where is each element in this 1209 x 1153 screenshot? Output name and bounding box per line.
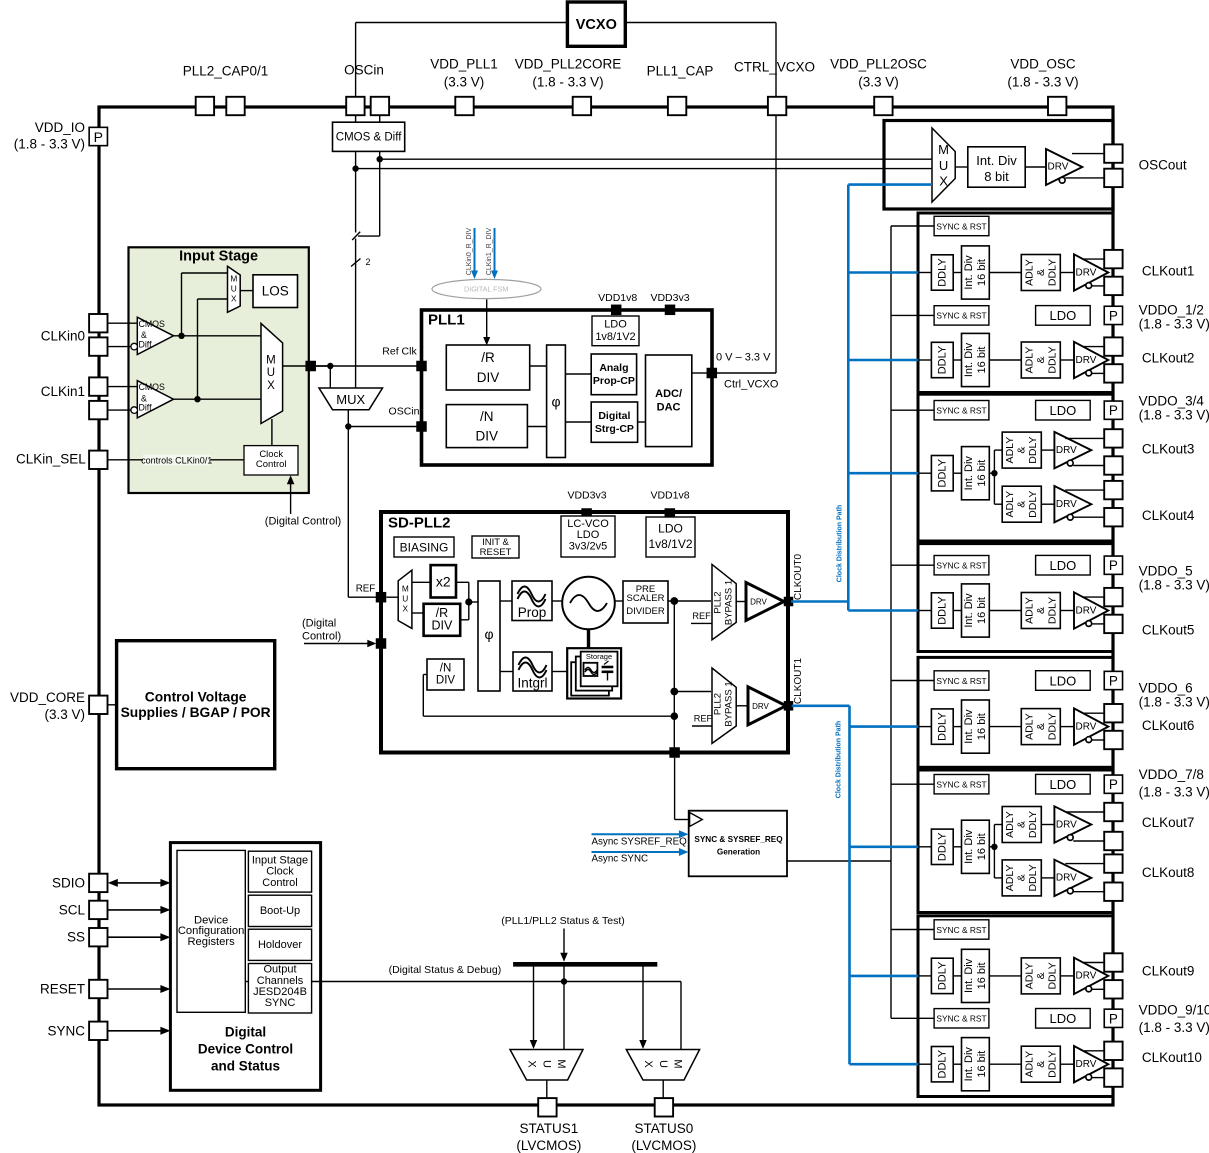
svg-text:LDO: LDO xyxy=(1050,308,1077,323)
svg-text:CLKin_SEL: CLKin_SEL xyxy=(16,452,86,467)
svg-text:Holdover: Holdover xyxy=(258,939,302,951)
block Control Voltage Supplies / BGAP / POR xyxy=(117,641,275,769)
svg-text:X: X xyxy=(267,380,275,392)
node VDD3v3 SD-PLL2 xyxy=(581,508,592,519)
svg-text:Int. Div: Int. Div xyxy=(963,709,975,744)
block Digital Device Control and Status xyxy=(170,843,320,1091)
wire Ref Clk line xyxy=(316,365,422,367)
block CMOS & Diff xyxy=(333,122,405,151)
svg-text:controls CLKin0/1: controls CLKin0/1 xyxy=(141,455,212,465)
arrow Async SYSREF_REQ xyxy=(592,833,681,835)
svg-text:X: X xyxy=(231,294,237,304)
svg-text:Int. Div: Int. Div xyxy=(963,593,975,628)
svg-text:Intgrl: Intgrl xyxy=(517,676,547,691)
wire REF to SD-PLL2 xyxy=(348,596,376,598)
svg-text:P: P xyxy=(94,129,103,145)
ldo VDDO_7/8 xyxy=(1036,774,1091,794)
svg-text:CLKOUT0: CLKOUT0 xyxy=(793,554,804,601)
wire Intgrl to storage xyxy=(552,671,567,673)
phase detector SD-PLL2 xyxy=(478,581,500,691)
svg-text:VDDO_3/4: VDDO_3/4 xyxy=(1139,394,1205,409)
pin SYNC xyxy=(89,1022,107,1040)
svg-text:Int. Div: Int. Div xyxy=(963,255,975,290)
pin CLKin_SEL xyxy=(89,451,107,469)
svg-text:P: P xyxy=(1109,308,1118,323)
svg-text:VDD_PLL1: VDD_PLL1 xyxy=(430,57,498,72)
label CLKOUT1 xyxy=(793,658,804,705)
svg-text:DIV: DIV xyxy=(436,675,456,687)
block SD-PLL2 xyxy=(381,512,788,753)
svg-text:Analg: Analg xyxy=(599,362,628,374)
node VDD1v8 PLL1 xyxy=(611,305,622,316)
svg-text:ADLY: ADLY xyxy=(1023,259,1035,286)
svg-text:P: P xyxy=(1109,777,1118,792)
divider /R DIV SD-PLL2 xyxy=(424,604,461,636)
mux STATUS1 xyxy=(510,1050,583,1081)
ldo VDDO_3/4 xyxy=(1036,400,1091,420)
svg-text:DDLY: DDLY xyxy=(1046,597,1058,624)
svg-text:Int. Div: Int. Div xyxy=(963,342,975,377)
svg-text:Clock Distribution Path: Clock Distribution Path xyxy=(835,721,842,798)
svg-text:X: X xyxy=(939,174,948,189)
svg-text:DDLY: DDLY xyxy=(936,1049,948,1078)
svg-text:DDLY: DDLY xyxy=(936,596,948,625)
svg-text:&: & xyxy=(1016,821,1028,828)
svg-text:Control Voltage: Control Voltage xyxy=(145,690,247,705)
pin OSCin_a xyxy=(346,97,364,115)
svg-text:Boot-Up: Boot-Up xyxy=(260,905,300,917)
svg-text:LDO: LDO xyxy=(1050,1011,1077,1026)
arrow CLKin0_R_DIV xyxy=(474,228,476,272)
svg-text:(3.3 V): (3.3 V) xyxy=(858,75,899,90)
svg-text:DRV: DRV xyxy=(1076,267,1097,278)
svg-text:(1.8 - 3.3 V): (1.8 - 3.3 V) xyxy=(532,75,603,90)
wire prescaler node down xyxy=(673,601,675,753)
svg-text:SYNC & RST: SYNC & RST xyxy=(936,780,986,790)
ldo VDDO_5 xyxy=(1036,555,1091,575)
wire Prop to VCO xyxy=(552,600,562,602)
channel CLKout2 xyxy=(848,359,918,362)
svg-text:&: & xyxy=(1035,269,1047,276)
svg-text:STATUS0: STATUS0 xyxy=(635,1121,694,1136)
arrow SDIO bidirectional xyxy=(112,882,166,884)
block LDO 1v8/1V2 PLL1 xyxy=(592,316,639,346)
svg-text:ADLY: ADLY xyxy=(1004,437,1016,464)
pin SCL xyxy=(89,901,107,919)
svg-text:VDDO_1/2: VDDO_1/2 xyxy=(1139,303,1204,318)
svg-text:Registers: Registers xyxy=(187,936,235,948)
svg-text:P: P xyxy=(1109,558,1118,573)
svg-text:M: M xyxy=(230,274,237,284)
svg-text:(LVCMOS): (LVCMOS) xyxy=(516,1138,581,1153)
block Boot-Up xyxy=(248,895,311,926)
arrow FSM to /R DIV xyxy=(486,299,488,338)
node SD-PLL2 bottom clock out xyxy=(669,747,680,758)
pin SS xyxy=(89,928,107,946)
block Device Configuration Registers xyxy=(177,850,245,1012)
svg-text:CLKout5: CLKout5 xyxy=(1142,623,1195,638)
block x2 doubler xyxy=(431,565,456,597)
svg-text:VDD_OSC: VDD_OSC xyxy=(1010,57,1076,72)
svg-text:and Status: and Status xyxy=(211,1058,280,1073)
wire buffer1 to big mux xyxy=(174,398,261,400)
svg-text:16 bit: 16 bit xyxy=(976,460,988,487)
svg-text:SYNC & RST: SYNC & RST xyxy=(936,1014,986,1024)
svg-text:ADLY: ADLY xyxy=(1023,713,1035,740)
wire clock distribution to OSCout mux xyxy=(848,183,932,186)
wire VDD_CORE to control voltage block xyxy=(108,704,117,706)
pin CTRL_VCXO xyxy=(768,97,786,115)
wire /R to phase det xyxy=(530,365,547,367)
mux PLL2 BYPASS 1 upper xyxy=(712,564,736,639)
wire phase det to Digital CP xyxy=(565,421,591,423)
wire mux to clock control xyxy=(271,419,273,446)
arrow SYNC xyxy=(108,1030,167,1032)
svg-text:Diff: Diff xyxy=(139,403,153,413)
svg-text:Strg-CP: Strg-CP xyxy=(595,423,634,435)
wire CLKin1 to input buffer xyxy=(108,386,138,388)
svg-text:CLKin1_R_DIV: CLKin1_R_DIV xyxy=(486,227,493,275)
svg-text:Device Control: Device Control xyxy=(198,1041,293,1056)
svg-text:Clock Distribution Path: Clock Distribution Path xyxy=(836,505,843,582)
svg-text:DRV: DRV xyxy=(750,598,767,607)
channel CLKout7/8 xyxy=(850,845,919,848)
svg-text:CLKin1: CLKin1 xyxy=(41,384,85,399)
svg-text:(1.8 - 3.3 V): (1.8 - 3.3 V) xyxy=(1139,1020,1209,1035)
svg-text:Int. Div: Int. Div xyxy=(963,1047,975,1082)
svg-text:DDLY: DDLY xyxy=(1027,864,1039,891)
svg-text:Int. Div: Int. Div xyxy=(963,829,975,864)
ellipse DIGITAL FSM xyxy=(432,279,541,298)
svg-text:Int. Div: Int. Div xyxy=(963,456,975,491)
svg-text:DDLY: DDLY xyxy=(1027,491,1039,518)
sync & rst CLKout10 xyxy=(891,1017,934,1019)
block channel group CLKout3/4 xyxy=(918,394,1113,541)
svg-text:CMOS & Diff: CMOS & Diff xyxy=(336,131,402,143)
svg-text:CMOS: CMOS xyxy=(139,382,166,392)
svg-text:U: U xyxy=(939,158,948,173)
divider /N DIV SD-PLL2 xyxy=(427,659,464,690)
svg-text:Int. Div: Int. Div xyxy=(963,958,975,993)
svg-text:3v3/2v5: 3v3/2v5 xyxy=(569,541,608,553)
svg-text:x2: x2 xyxy=(436,574,451,590)
svg-text:&: & xyxy=(1016,501,1028,508)
wire mux to /R DIV sdpll2 xyxy=(412,612,424,614)
svg-text:SYNC & RST: SYNC & RST xyxy=(936,676,986,686)
wire sdpll2 clock to sysref gen xyxy=(674,758,676,820)
chip outer boundary xyxy=(99,107,1113,1105)
svg-text:VDDO_9/10: VDDO_9/10 xyxy=(1139,1003,1209,1018)
svg-text:CMOS: CMOS xyxy=(139,319,166,329)
svg-text:ADLY: ADLY xyxy=(1023,347,1035,374)
wire mux output down xyxy=(347,410,349,598)
svg-text:LDO: LDO xyxy=(604,319,627,331)
block LC-VCO LDO 3v3/2v5 xyxy=(561,516,615,557)
filter Prop xyxy=(512,581,552,621)
node CLKOUT0 xyxy=(784,597,794,607)
svg-text:Diff: Diff xyxy=(139,339,153,349)
svg-text:VDDO_6: VDDO_6 xyxy=(1139,681,1193,696)
wire to bypass2 input xyxy=(674,691,711,693)
svg-text:CLKOUT1: CLKOUT1 xyxy=(793,658,804,705)
pin CLKin1_a xyxy=(89,377,107,395)
svg-text:OSCin: OSCin xyxy=(389,406,420,418)
wire to OSCout mux lower xyxy=(356,168,932,170)
svg-text:U: U xyxy=(402,594,408,604)
driver DRV OSCout xyxy=(1046,149,1082,185)
svg-text:LOS: LOS xyxy=(262,284,289,299)
svg-text:U: U xyxy=(267,367,275,379)
node PLL1 OSCin input xyxy=(416,421,427,432)
svg-text:DRV: DRV xyxy=(1076,605,1097,616)
svg-text:1v8/1V2: 1v8/1V2 xyxy=(595,331,635,343)
block Clock Control xyxy=(244,446,298,475)
svg-text:X: X xyxy=(526,1060,538,1068)
wire CLKOUT1 to distribution xyxy=(792,704,850,707)
svg-text:LDO: LDO xyxy=(1050,558,1077,573)
sync & rst CLKout3/4 xyxy=(891,409,934,411)
svg-text:Async SYNC: Async SYNC xyxy=(592,854,649,865)
svg-text:VDD3v3: VDD3v3 xyxy=(650,292,689,304)
svg-text:DAC: DAC xyxy=(657,402,681,414)
svg-text:RESET: RESET xyxy=(40,982,85,997)
svg-text:/N: /N xyxy=(440,663,452,675)
svg-text:M: M xyxy=(266,354,276,366)
wire junction to phase det sdpll2 xyxy=(469,601,478,603)
svg-text:(1.8 - 3.3 V): (1.8 - 3.3 V) xyxy=(1139,695,1209,710)
svg-text:VDD_PLL2CORE: VDD_PLL2CORE xyxy=(515,57,622,72)
svg-text:&: & xyxy=(1035,356,1047,363)
wire VCO to prescaler xyxy=(615,600,623,602)
wire CLKin_SEL to Clock Control xyxy=(108,459,245,461)
block Input Stage xyxy=(129,247,309,493)
svg-text:(1.8 - 3.3 V): (1.8 - 3.3 V) xyxy=(1007,75,1078,90)
svg-text:SYNC: SYNC xyxy=(47,1023,85,1038)
wire phase det to Intgrl xyxy=(500,671,513,673)
svg-text:φ: φ xyxy=(551,394,560,410)
phase detector PLL1 xyxy=(547,345,566,458)
buffer CMOS & Diff 1 xyxy=(137,381,173,418)
mux STATUS0 xyxy=(626,1050,699,1081)
svg-text:PLL2_CAP0/1: PLL2_CAP0/1 xyxy=(183,64,269,79)
svg-text:VDD3v3: VDD3v3 xyxy=(567,490,606,502)
svg-text:CLKout7: CLKout7 xyxy=(1142,815,1195,830)
divider /R DIV PLL1 xyxy=(446,345,529,390)
ldo VDDO_9/10 xyxy=(1036,1009,1091,1029)
node input stage mux output xyxy=(283,365,331,367)
arrow RESET xyxy=(108,988,167,990)
svg-text:(Digital Status & Debug): (Digital Status & Debug) xyxy=(389,964,502,976)
svg-text:Digital: Digital xyxy=(225,1024,266,1039)
svg-text:RESET: RESET xyxy=(480,547,512,558)
block ADC/DAC xyxy=(646,355,692,447)
svg-text:REF: REF xyxy=(692,611,711,621)
pin PLL2_CAP0 xyxy=(196,97,214,115)
svg-text:/N: /N xyxy=(480,409,494,424)
svg-text:DDLY: DDLY xyxy=(936,458,948,487)
svg-text:(1.8 - 3.3 V): (1.8 - 3.3 V) xyxy=(1139,578,1209,593)
pin PLL1_CAP xyxy=(668,97,686,115)
wire LOS mux to LOS xyxy=(240,290,253,292)
svg-text:VDD1v8: VDD1v8 xyxy=(598,292,637,304)
svg-text:Control: Control xyxy=(256,459,287,470)
arrow digital control to SD-PLL2 xyxy=(304,643,368,645)
svg-text:CTRL_VCXO: CTRL_VCXO xyxy=(734,60,815,75)
svg-text:(1.8 - 3.3 V): (1.8 - 3.3 V) xyxy=(1139,785,1209,800)
wire /N to phase det xyxy=(527,426,546,428)
sync & rst CLKout6 xyxy=(891,680,934,682)
block PRE SCALER DIVIDER xyxy=(623,581,668,623)
svg-text:CLKout8: CLKout8 xyxy=(1142,865,1195,880)
svg-text:LDO: LDO xyxy=(1050,673,1077,688)
svg-text:P: P xyxy=(1109,674,1118,689)
svg-text:Input Stage: Input Stage xyxy=(179,249,258,265)
mux ref doubler select xyxy=(386,596,398,598)
svg-text:DDLY: DDLY xyxy=(1046,259,1058,286)
pin STATUS1 xyxy=(538,1098,556,1116)
svg-text:LDO: LDO xyxy=(1050,403,1077,418)
channel CLKout6 xyxy=(850,725,919,728)
svg-text:PLL2: PLL2 xyxy=(713,591,724,613)
svg-text:Async SYSREF_REQ: Async SYSREF_REQ xyxy=(592,836,688,847)
svg-text:DDLY: DDLY xyxy=(936,832,948,861)
label Clock Distribution Path upper xyxy=(836,505,843,582)
arrow digital control to clock control xyxy=(290,483,292,514)
svg-text:DDLY: DDLY xyxy=(1027,436,1039,463)
block LDO 1v8/1V2 SD-PLL2 xyxy=(646,517,695,557)
svg-text:DRV: DRV xyxy=(1056,445,1077,456)
pin VDD_IO (P) xyxy=(89,127,107,145)
svg-text:&: & xyxy=(1016,447,1028,454)
svg-text:DIV: DIV xyxy=(477,370,500,385)
node digital control SD-PLL2 xyxy=(376,638,387,649)
svg-text:Ref Clk: Ref Clk xyxy=(382,345,417,357)
svg-text:16 bit: 16 bit xyxy=(976,833,988,860)
wire bypass1 to DRV xyxy=(736,601,746,603)
wire CLKin0 to input buffer xyxy=(108,322,138,324)
sync & rst CLKout9 xyxy=(891,929,934,931)
svg-text:BIASING: BIASING xyxy=(400,541,449,555)
svg-text:U: U xyxy=(657,1060,669,1068)
wire status1 mux to pin xyxy=(546,1080,548,1098)
svg-text:16 bit: 16 bit xyxy=(976,962,988,989)
filter Intgrl xyxy=(513,652,552,691)
svg-text:Prop: Prop xyxy=(518,605,547,620)
svg-text:CLKout10: CLKout10 xyxy=(1142,1050,1202,1065)
svg-text:M: M xyxy=(938,142,949,157)
svg-text:VDDO_5: VDDO_5 xyxy=(1139,564,1193,579)
svg-text:CLKout1: CLKout1 xyxy=(1142,263,1195,278)
node REF SD-PLL2 xyxy=(376,592,387,603)
arrow status test to bus xyxy=(563,929,565,955)
pin OSCout_b xyxy=(1104,169,1122,187)
block INIT & RESET xyxy=(472,536,519,558)
buffer CMOS & Diff 0 xyxy=(137,317,173,354)
wire buffer0 up to LOS mux xyxy=(181,273,183,336)
node VDD3v3 PLL1 xyxy=(665,305,676,316)
block OSCout xyxy=(884,121,1113,210)
svg-text:(3.3 V): (3.3 V) xyxy=(44,707,85,722)
sync & rst CLKout5 xyxy=(891,564,934,566)
svg-text:&: & xyxy=(1035,607,1047,614)
pin CLKin0_a xyxy=(89,314,107,332)
pin SDIO xyxy=(89,874,107,892)
pin VDD_PLL1 xyxy=(455,97,473,115)
block Digital Strg-CP xyxy=(591,402,637,442)
svg-text:(Digital: (Digital xyxy=(302,618,336,630)
svg-text:DRV: DRV xyxy=(1076,721,1097,732)
svg-text:MUX: MUX xyxy=(336,392,365,407)
wire /R output to junction xyxy=(460,619,469,621)
ldo VDDO_1/2 xyxy=(1036,306,1091,326)
node PLL1 Ref Clk input xyxy=(416,361,427,372)
svg-text:Control: Control xyxy=(262,877,297,889)
svg-text:0 V – 3.3 V: 0 V – 3.3 V xyxy=(716,352,771,364)
svg-text:CLKout9: CLKout9 xyxy=(1142,963,1195,978)
svg-text:DIVIDER: DIVIDER xyxy=(626,606,665,617)
svg-text:SYNC & RST: SYNC & RST xyxy=(936,925,986,935)
sync & rst CLKout1 xyxy=(891,225,934,227)
svg-text:DRV: DRV xyxy=(1048,162,1069,173)
svg-text:DRV: DRV xyxy=(752,702,769,711)
svg-text:STATUS1: STATUS1 xyxy=(520,1121,579,1136)
channel CLKout10 xyxy=(850,1063,919,1066)
svg-text:PLL1: PLL1 xyxy=(428,312,465,329)
node Ctrl_VCXO PLL1 xyxy=(707,368,718,379)
wire DRV to OSCout pins xyxy=(1072,153,1104,155)
svg-text:M: M xyxy=(555,1059,567,1068)
svg-text:CLKout2: CLKout2 xyxy=(1142,351,1195,366)
svg-text:SDIO: SDIO xyxy=(52,875,85,890)
svg-text:PLL2: PLL2 xyxy=(713,693,724,715)
driver DRV CLKOUT0 xyxy=(746,583,784,621)
svg-text:16 bit: 16 bit xyxy=(976,1051,988,1078)
svg-text:8 bit: 8 bit xyxy=(984,169,1009,184)
svg-text:SYNC & RST: SYNC & RST xyxy=(936,561,986,571)
mux PLL2 BYPASS 1 lower xyxy=(712,668,736,743)
svg-text:Digital: Digital xyxy=(598,410,630,422)
wire CMOS & Diff down left branch xyxy=(355,151,357,232)
svg-text:DDLY: DDLY xyxy=(936,961,948,990)
wire clock distribution upper vertical xyxy=(847,185,850,611)
svg-text:U: U xyxy=(231,284,237,294)
svg-text:16 bit: 16 bit xyxy=(976,347,988,374)
pin CLKin0_b xyxy=(89,337,107,355)
svg-text:DDLY: DDLY xyxy=(1046,1051,1058,1078)
svg-text:DDLY: DDLY xyxy=(1046,713,1058,740)
wire registers to output channels xyxy=(245,981,248,983)
channel CLKout5 xyxy=(848,609,918,612)
svg-text:Generation: Generation xyxy=(717,848,760,857)
svg-text:ADLY: ADLY xyxy=(1023,597,1035,624)
svg-text:(1.8 - 3.3 V): (1.8 - 3.3 V) xyxy=(1139,317,1209,332)
svg-text:Ctrl_VCXO: Ctrl_VCXO xyxy=(724,378,779,390)
svg-text:VDD_IO: VDD_IO xyxy=(35,120,85,135)
wire bypass2 to DRV xyxy=(736,705,748,707)
svg-text:SYNC: SYNC xyxy=(265,997,296,1009)
wire ADC/DAC to ctrl node xyxy=(692,372,707,374)
svg-text:DDLY: DDLY xyxy=(1046,962,1058,989)
wire sysref gen output xyxy=(787,860,891,862)
wire VCXO left to OSCin pin xyxy=(356,22,568,24)
svg-text:CLKout3: CLKout3 xyxy=(1142,442,1195,457)
oscillator LC-VCO circle xyxy=(562,577,615,630)
mux input select xyxy=(261,323,283,423)
pin VDD_PLL2CORE xyxy=(573,97,591,115)
svg-text:&: & xyxy=(1016,874,1028,881)
svg-text:DRV: DRV xyxy=(1056,499,1077,510)
svg-text:16 bit: 16 bit xyxy=(976,597,988,624)
